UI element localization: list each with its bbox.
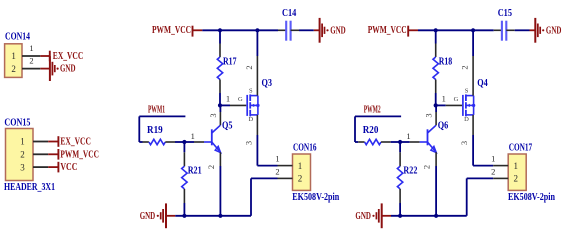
node junction R17/Q3 gate wire [218,103,222,107]
ground (bottom rail) [381,203,383,228]
svg-text:1: 1 [513,161,518,171]
resistor R20 [355,125,400,145]
connector CON14 [5,31,30,77]
svg-text:1: 1 [298,161,303,171]
svg-text:3: 3 [459,141,469,145]
svg-text:PWM2: PWM2 [364,104,381,115]
pin 1 of CON17 [491,154,508,166]
node junction R19/R21/Q5 base [182,140,186,144]
svg-text:R22: R22 [403,166,417,177]
node junction rail/Q3 source [255,28,259,32]
svg-text:2: 2 [491,166,495,176]
node junction R18/Q4 gate wire [434,103,438,107]
wire Q4 source to rail (pin 2) [460,30,474,95]
svg-text:3: 3 [424,113,434,117]
ground (top, after cap) [530,18,562,43]
svg-text:CON16: CON16 [293,142,317,153]
wire bottom rail [391,215,467,217]
svg-text:1: 1 [191,131,195,141]
pin 1 of CON14 [22,43,40,56]
svg-text:Q3: Q3 [262,78,273,89]
svg-text:EK508V-2pin: EK508V-2pin [508,192,555,203]
svg-text:1: 1 [29,43,33,53]
svg-text:Q5: Q5 [222,121,233,132]
transistor Q6 (NPN) [420,121,449,153]
wire base of Q5 [184,131,204,142]
node junction rail/Q5 emitter [218,214,222,218]
svg-text:VCC: VCC [60,162,77,173]
node junction rail/Q6 emitter [434,214,438,218]
transistor Q5 (NPN) [204,121,233,153]
svg-text:1: 1 [20,137,25,147]
svg-text:PWM1: PWM1 [148,104,165,115]
wire cap to ground [515,29,530,31]
svg-text:CON17: CON17 [509,142,533,153]
svg-text:S: S [465,88,469,95]
connector CON17 [508,142,555,203]
svg-text:1: 1 [226,94,230,104]
svg-text:CON14: CON14 [5,31,30,42]
svg-text:R20: R20 [363,125,379,136]
svg-text:Q4: Q4 [477,78,488,89]
pin 3 of CON15 [33,166,48,168]
svg-text:HEADER_3X1: HEADER_3X1 [4,182,55,193]
svg-text:3: 3 [208,113,218,117]
svg-text:2: 2 [206,165,216,169]
svg-text:EX_VCC: EX_VCC [53,51,84,62]
svg-text:1: 1 [275,154,279,164]
wire Q5 collector (pin 3) [208,105,221,125]
node junction rail/R18 [434,28,438,32]
svg-text:2: 2 [244,65,254,69]
wire rail to CON17 pin 2 [467,178,494,215]
svg-text:GND: GND [546,26,562,37]
resistor R17 [217,30,236,105]
ground (bottom rail) [165,203,167,228]
svg-text:GND: GND [355,211,371,222]
svg-text:R17: R17 [223,56,237,67]
wire gate of Q3 [220,94,246,106]
svg-text:GND: GND [330,26,346,37]
pin 2 of CON17 [491,166,508,178]
power flag EX_VCC (CON15 pin 1) [48,136,91,147]
wire Q6 emitter to rail (pin 2) [422,152,437,216]
svg-text:2: 2 [460,65,470,69]
node junction rail/R21 [182,214,186,218]
resistor R19 [139,125,184,145]
svg-text:Q6: Q6 [438,121,449,132]
pin 1 of CON15 [33,141,48,143]
svg-text:EX_VCC: EX_VCC [60,137,91,148]
svg-text:2: 2 [422,165,432,169]
svg-text:G: G [454,96,459,103]
svg-text:1: 1 [406,131,410,141]
transistor Q3 (P-MOSFET) [238,78,272,123]
wire top rail [418,29,494,31]
svg-text:PWM_VCC: PWM_VCC [152,25,191,36]
connector CON15 [4,118,55,193]
pin 2 of CON15 [33,153,48,155]
wire bottom rail [175,215,251,217]
svg-text:C15: C15 [498,8,512,19]
node junction R20/R22/Q6 base [398,140,402,144]
svg-text:PWM_VCC: PWM_VCC [368,25,407,36]
wire Q3 source to rail (pin 2) [244,30,258,95]
pin 1 of CON16 [275,154,292,166]
node junction rail/R17 [218,28,222,32]
wire base of Q6 [400,131,420,142]
svg-text:2: 2 [298,174,303,184]
wire rail to CON16 pin 2 [251,178,278,215]
svg-text:EK508V-2pin: EK508V-2pin [292,192,339,203]
wire top rail [202,29,278,31]
svg-text:1: 1 [11,51,16,61]
wire Q6 collector (pin 3) [424,105,437,125]
resistor R21 [182,142,202,216]
wire cap to ground [299,29,314,31]
svg-text:2: 2 [29,56,33,66]
svg-text:D: D [248,116,253,123]
capacitor C14 [278,8,299,41]
power flag PWM_VCC (CON15 pin 2) [48,149,99,160]
svg-text:PWM_VCC: PWM_VCC [60,149,99,160]
svg-text:C14: C14 [282,8,296,19]
svg-text:CON15: CON15 [4,118,30,129]
wire Q3 drain to CON16 pin 1 (pin 3) [243,115,277,166]
svg-text:2: 2 [513,174,518,184]
power flag EX_VCC (CON14 pin 1) [40,51,83,62]
svg-text:1: 1 [442,94,446,104]
svg-text:D: D [464,116,469,123]
svg-text:2: 2 [11,64,16,74]
svg-text:S: S [249,88,253,95]
power flag PWM_VCC (Q4 cell) [368,25,418,37]
capacitor C15 [494,8,515,41]
resistor R22 [397,142,417,216]
svg-text:GND: GND [140,211,156,222]
svg-text:R19: R19 [147,125,163,136]
svg-text:GND: GND [60,64,76,75]
connector CON16 [292,142,339,203]
svg-text:R21: R21 [188,166,202,177]
node junction rail/Q4 source [471,28,475,32]
ground GND (CON14 pin 2) [40,56,75,81]
node junction rail/R22 [398,214,402,218]
power flag PWM_VCC (Q3 cell) [152,25,202,37]
wire Q4 drain to CON17 pin 1 (pin 3) [459,115,493,166]
wire gate of Q4 [436,94,462,106]
svg-text:G: G [238,96,243,103]
wire Q5 emitter to rail (pin 2) [206,152,221,216]
svg-text:2: 2 [20,150,25,160]
svg-text:R18: R18 [439,56,453,67]
transistor Q4 (P-MOSFET) [454,78,488,123]
resistor R18 [433,30,452,105]
svg-text:2: 2 [275,166,279,176]
net label PWM1 [139,104,185,142]
svg-text:3: 3 [243,141,253,145]
net label PWM2 [355,104,401,142]
svg-text:1: 1 [491,154,495,164]
pin 2 of CON14 [22,56,40,69]
power flag VCC (CON15 pin 3) [48,162,77,173]
pin 2 of CON16 [275,166,292,178]
ground (top, after cap) [314,18,346,43]
svg-text:3: 3 [20,162,25,172]
